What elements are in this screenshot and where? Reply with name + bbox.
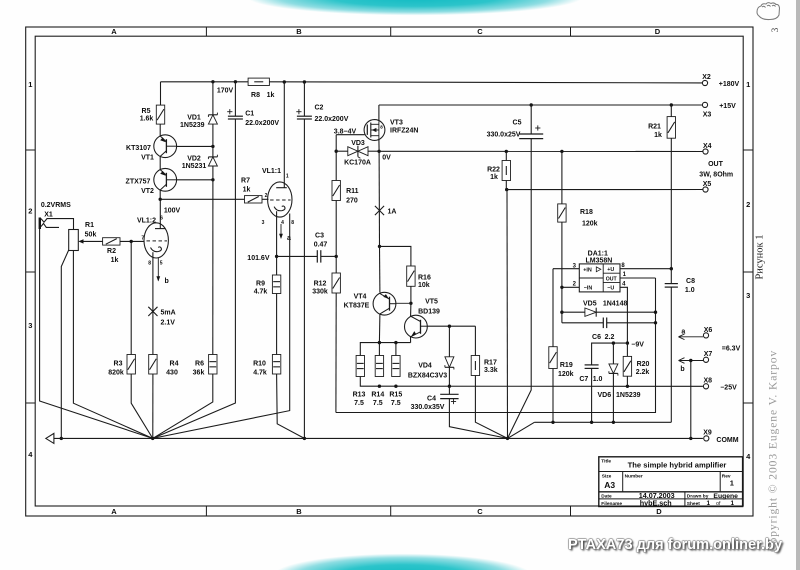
resistor R6 [209,355,217,375]
svg-text:0.47: 0.47 [314,242,328,249]
resistor R22 [505,151,507,160]
svg-text:LM358N: LM358N [585,257,612,264]
wire X5 node down to right ground fan [506,190,509,439]
svg-text:OUT: OUT [708,161,724,168]
wire VD3 right lead to VT3 column [368,150,379,152]
svg-text:8: 8 [380,125,383,130]
svg-text:1: 1 [28,80,32,89]
wire node to R12 [335,256,337,273]
svg-text:R9: R9 [256,281,265,288]
svg-text:+U: +U [607,267,614,273]
node R14 top junction [378,341,381,344]
svg-text:=6.3V: =6.3V [722,346,741,353]
potentiometer R1 [69,230,79,251]
zone tick marks top band [205,27,207,36]
svg-text:1k: 1k [111,257,119,264]
svg-text:820k: 820k [108,369,124,376]
capacitor C1 [234,82,236,116]
svg-text:2: 2 [28,207,32,216]
resistor R10 [272,355,280,375]
svg-text:B: B [296,27,302,36]
svg-text:430: 430 [166,369,178,376]
resistor R21 [670,105,672,117]
wire bus B negative supply decoupling [534,421,671,423]
svg-text:1k: 1k [490,174,498,181]
svg-text:R14: R14 [371,392,384,399]
wire pin1 OUT to OUT column [620,277,656,279]
wire VL1:1 anode to rail [283,82,285,188]
capacitor C2 [303,82,305,116]
zone tick marks bottom band [205,506,207,516]
svg-text:4: 4 [746,452,751,461]
svg-text:IRFZ24N: IRFZ24N [390,128,418,135]
svg-text:R10: R10 [253,361,266,368]
svg-text:VD5: VD5 [583,300,597,307]
resistor R3 [127,355,135,375]
svg-text:−9V: −9V [631,341,644,348]
svg-text:Drawn by: Drawn by [687,493,709,499]
svg-text:3: 3 [770,27,780,32]
node R19 bus junction [551,421,554,424]
wire 100V node to R7 [160,198,244,200]
wire R5 to VT1 [159,124,161,136]
svg-text:8: 8 [621,263,625,269]
svg-text:Copyright © 2003 Eugene V. Kar: Copyright © 2003 Eugene V. Karpov [767,350,780,552]
offpage arrow b at VL1:2 cathode [157,258,159,281]
svg-text:Title: Title [601,459,611,465]
svg-text:OUT: OUT [606,276,618,282]
terminal X3 [702,102,707,107]
svg-text:b: b [165,278,169,285]
wire junction to R16 [380,246,411,266]
wire R9 to R10 [276,294,278,355]
title block outline [599,457,743,507]
node R18 top junction [560,150,563,153]
wire VT3 source down to 0V node and 1A probe [378,140,380,152]
node left ground fan [151,437,154,440]
current probe 1A [375,206,384,215]
node VT4 top junction [378,245,381,248]
svg-text:R15: R15 [389,392,402,399]
svg-text:R1: R1 [85,222,94,229]
svg-text:C5: C5 [513,120,522,127]
svg-text:R2: R2 [107,248,116,255]
svg-text:1k: 1k [654,132,662,139]
node C7 bus junction [590,421,593,424]
svg-text:VD4: VD4 [418,363,432,370]
svg-text:4.7k: 4.7k [253,369,267,376]
svg-text:1N5231: 1N5231 [182,163,207,170]
wire R5 top from rail [160,82,162,105]
node rail-VD1 junction [211,80,214,83]
wire pin8 +U to R21/C8 column [620,268,671,270]
wire VT3 gate to VD3 node [336,134,365,136]
terminal X4 [703,149,708,154]
zener diode VD2 [208,156,217,158]
terminal X9 [704,436,709,441]
svg-text:VT4: VT4 [354,294,367,301]
svg-text:170V: 170V [217,88,234,95]
svg-text:a: a [287,235,291,242]
svg-text:7.5: 7.5 [354,400,364,407]
svg-text:Date: Date [601,493,612,499]
svg-text:−25V: −25V [720,385,737,392]
node +U C8 junction [670,267,673,270]
svg-text:1.0: 1.0 [593,376,603,383]
svg-text:VL1:2: VL1:2 [137,218,156,225]
node R20 bottom junction [626,385,629,388]
node VD1-VD2 / VT1 base junction [211,145,214,148]
resistor R9 [272,275,280,294]
svg-text:1: 1 [730,479,734,488]
resistor R13 [356,356,364,377]
offpage arrow a to X6 [679,336,704,338]
wire -25V row [360,377,703,387]
top cyan swoosh [205,0,625,20]
svg-text:C4: C4 [427,396,436,403]
svg-text:X3: X3 [703,112,712,119]
wire 0V X4 row [379,150,703,152]
wire R6 to ground fan [153,374,213,438]
node shield-COMM junction [60,437,63,440]
svg-text:R19: R19 [560,362,573,369]
wire R1 shield jog to COMM [61,250,68,438]
wire C2 down to COMM [303,119,305,438]
node rail-VL1:1 anode junction [283,80,286,83]
svg-text:1: 1 [623,272,627,278]
node VD2 / VT2 base junction [211,178,214,181]
op-amp DA1:1 LM358N [579,264,620,292]
node C2-COMM junction [303,437,306,440]
svg-text:50k: 50k [85,232,97,239]
svg-text:330k: 330k [312,289,328,296]
wire VD3 left lead [336,150,348,152]
resistor R16 [407,266,415,286]
svg-text:−IN: −IN [584,286,593,292]
svg-text:R18: R18 [580,209,593,216]
node R22 bottom X5 junction [505,188,508,191]
svg-text:330.0x25V: 330.0x25V [487,132,521,139]
svg-text:0V: 0V [382,154,391,161]
svg-text:BD139: BD139 [418,309,440,316]
wire VT2 base to VD column [177,179,213,181]
tube VL1:2 triode [144,223,168,258]
svg-text:R5: R5 [142,108,151,115]
node VD5 row right junction [654,311,657,314]
svg-text:7.5: 7.5 [391,400,401,407]
node R14 bottom junction [378,385,381,388]
wire R10 to COMM [277,374,305,438]
wire R4 to fan [152,374,154,438]
svg-text:Size: Size [602,474,612,480]
capacitor C7 [585,364,599,366]
wire R12 down to feedback line A [335,293,337,413]
svg-text:+15V: +15V [719,103,736,110]
svg-text:VT2: VT2 [141,188,154,195]
node VT4 base R16 junction [409,302,412,305]
svg-text:of: of [716,501,721,507]
svg-text:1A: 1A [388,209,397,216]
svg-text:2: 2 [573,282,577,288]
node R15 top junction [394,341,397,344]
node rail-C2 junction [303,80,306,83]
resistor R17 [471,356,479,376]
svg-text:Рисунок 1: Рисунок 1 [755,234,766,279]
resistor R4 [149,355,157,375]
svg-text:8: 8 [291,220,294,226]
wire R2 to VL1:2 grid [120,240,144,242]
svg-text:D: D [656,507,662,516]
svg-text:3.3k: 3.3k [484,367,498,374]
wire +15V row [379,104,703,106]
resistor R20 [626,343,628,356]
wire R3 column [130,241,132,354]
node VD6 bus junction [612,421,615,424]
svg-text:1: 1 [286,174,289,180]
svg-text:X6: X6 [704,327,713,334]
svg-text:R22: R22 [487,167,500,174]
inner frame border [35,36,743,506]
resistor R7 [245,196,263,203]
offpage arrow a at VL1:1 cathode [280,224,282,238]
transistor VT4 KT837E [379,246,381,292]
svg-text:VL1:1: VL1:1 [262,168,281,175]
svg-text:X9: X9 [703,429,712,436]
node R2-R3 junction [130,240,133,243]
wire -9V row to C7 [592,343,628,365]
current probe 5mA [148,307,157,316]
svg-text:KT837E: KT837E [344,303,370,310]
svg-text:4: 4 [622,281,626,287]
resistor R19 [552,269,554,347]
svg-text:100V: 100V [164,207,181,214]
svg-text:7.5: 7.5 [373,400,383,407]
svg-text:R12: R12 [314,281,327,288]
resistor R11 [332,181,340,201]
transistor VT1 KT3107 [154,135,177,158]
resistor R8 [248,78,269,85]
svg-text:C7: C7 [579,376,588,383]
capacitor C5 [530,105,532,134]
svg-text:3: 3 [262,220,265,226]
node b junction [689,359,692,362]
node -9V junction [626,341,629,344]
resistor R5 [156,105,164,124]
node VD3 left junction [335,150,338,153]
node VD4 C4 junction [448,385,451,388]
svg-text:5: 5 [160,261,163,267]
node R22 top junction [505,150,508,153]
wire VD2 to VT2-base node and down to R6 [212,166,214,180]
node C3-R11-R12 junction [335,255,338,258]
resistor R14 [378,343,380,356]
resistor R12 [332,273,340,293]
svg-text:10k: 10k [418,282,430,289]
wire emitter resistor top bus [360,343,410,356]
wire VD1 to VT1-base node [212,124,214,146]
wire X1 tip to R1 [52,219,74,230]
svg-text:120k: 120k [558,371,574,378]
svg-text:8: 8 [148,261,151,267]
wire VL1:1 cathode to 101.6V node and R9 [276,211,278,275]
svg-text:C8: C8 [686,278,695,285]
wire VL1:2 anode to 100V node [159,199,161,228]
svg-text:1k: 1k [267,92,275,99]
svg-text:X1: X1 [44,212,53,219]
wire +180V rail [161,81,249,83]
svg-text:VT3: VT3 [390,120,403,127]
wire COMM row [54,437,703,439]
wire pin4 -U down to -9V node [620,287,627,343]
wire R16 to VT4 base node [410,286,412,303]
svg-text:C3: C3 [315,232,324,239]
capacitor C8 [670,269,672,284]
wire node to VD2 [212,146,214,157]
svg-text:1: 1 [707,500,711,507]
svg-text:VD2: VD2 [187,156,201,163]
wire feedback line R12 to OUT column [336,278,656,413]
svg-text:0.2VRMS: 0.2VRMS [41,202,71,209]
wire R7 to VL1:1 grid [262,198,269,200]
svg-text:R13: R13 [353,392,366,399]
node C6 row right junction [654,321,657,324]
node R15 bottom junction [394,385,397,388]
svg-text:R7: R7 [241,177,250,184]
svg-text:R11: R11 [346,188,359,195]
zener diode VD1 [208,114,217,116]
wire C5 down to fan [508,139,532,439]
svg-text:270: 270 [346,198,358,205]
svg-text:The simple hybrid amplifier: The simple hybrid amplifier [628,461,727,470]
svg-text:A: A [111,507,117,516]
svg-text:A: A [111,27,117,36]
node +15V C5 junction [530,103,533,106]
svg-text:VD1: VD1 [187,115,201,122]
tube VL1:1 triode [268,182,292,217]
wire R18 down to -IN network [561,222,563,323]
svg-text:1: 1 [746,80,750,89]
zener diode VD6 [612,343,614,364]
wire VT3 drain to +15V elbow [378,105,380,121]
wire R17 down to fan [475,376,507,439]
resistor R2 [103,238,120,245]
resistor R15 [395,343,397,356]
svg-text:1.0: 1.0 [685,287,695,294]
zener diode VD4 [448,326,450,357]
transistor VT2 ZTX757 [154,168,177,191]
svg-text:1k: 1k [243,187,251,194]
svg-text:+180V: +180V [719,81,740,88]
svg-text:A3: A3 [604,480,615,490]
svg-text:VT5: VT5 [425,299,438,306]
svg-text:R20: R20 [637,361,650,368]
node right ground fan [506,437,509,440]
watermark text forum.onliner.by [568,537,800,553]
svg-text:KC170A: KC170A [344,160,371,167]
wire rail to VD1 [212,82,214,115]
wire X1 sleeve down to fan [40,229,153,438]
wire C1 to ground fan [153,119,236,438]
wire C3 to R11/R12 node [321,255,336,257]
offpage arrow b to X7 [679,360,704,362]
svg-text:3: 3 [28,321,32,330]
svg-text:R8: R8 [251,92,260,99]
svg-text:2: 2 [265,193,268,199]
wire VL1:1 pin8 down to fan [153,214,290,439]
wire VT1 to VT2 [159,156,161,169]
resistor R18 [561,151,563,204]
wire VT4 collector down to emitter-resistor bus [378,314,381,343]
wire R19 to bus B [552,369,554,423]
zener diode VD3 KC170A bidirectional [348,147,358,156]
svg-text:3W, 8Ohm: 3W, 8Ohm [699,171,733,178]
svg-text:Eugene: Eugene [713,493,738,500]
wire pin3 +IN from R19 column [553,268,579,270]
wire VL1:2 cathode down through 5mA probe to R4 [152,252,154,354]
wire pin2 -IN from R18 column [562,286,579,288]
node 101.6V junction [275,255,278,258]
capacitor C3 [316,250,318,262]
svg-text:330.0x35V: 330.0x35V [411,404,445,411]
node VD5 row left junction [560,311,563,314]
wire R1 bottom to fan [73,251,152,439]
svg-text:C: C [477,27,483,36]
terminal X6 [703,333,708,338]
svg-text:R16: R16 [418,275,431,282]
diode VD5 1N4148 [562,311,585,313]
svg-text:4: 4 [281,220,284,226]
svg-text:a: a [681,329,685,336]
svg-text:−U: −U [607,286,614,292]
zone tick marks right band [743,149,753,151]
svg-text:B: B [296,507,302,516]
node +15V R21 junction [670,103,673,106]
svg-text:COMM: COMM [716,437,738,444]
svg-text:hybE.sch: hybE.sch [640,499,672,508]
svg-text:BZX84C3V3: BZX84C3V3 [408,373,447,380]
svg-text:R4: R4 [170,361,179,368]
svg-text:D: D [655,27,661,36]
svg-text:2.2: 2.2 [605,334,615,341]
svg-text:DA1:1: DA1:1 [588,250,608,257]
terminal X5 [703,187,708,192]
svg-text:R17: R17 [484,360,497,367]
capacitor C4 [448,386,450,394]
svg-text:101.6V: 101.6V [247,255,270,262]
node VT5 collector C4 junction [448,325,451,328]
svg-text:R3: R3 [114,361,123,368]
svg-text:5mA: 5mA [161,310,176,317]
svg-text:7: 7 [141,235,144,241]
wire 101.6V node to C3 [277,255,318,257]
svg-text:X5: X5 [703,181,712,188]
wire VT5 emitter to bus [410,337,412,343]
node rail-C1 junction [234,80,237,83]
node b-COMM junction [689,437,692,440]
svg-text:Sheet: Sheet [687,501,700,507]
node VT3 source 0V junction [377,150,380,153]
svg-text:120k: 120k [582,220,598,227]
svg-text:22.0x200V: 22.0x200V [315,116,349,123]
wire VD4 to -25V row [448,367,450,386]
wire C4 to fan [449,399,507,439]
svg-text:R21: R21 [648,124,661,131]
terminal X2 [702,80,707,85]
svg-text:2.2k: 2.2k [636,369,650,376]
capacitor C6 row [562,322,603,324]
svg-text:ZTX757: ZTX757 [126,179,151,186]
svg-text:Filename: Filename [601,501,622,507]
